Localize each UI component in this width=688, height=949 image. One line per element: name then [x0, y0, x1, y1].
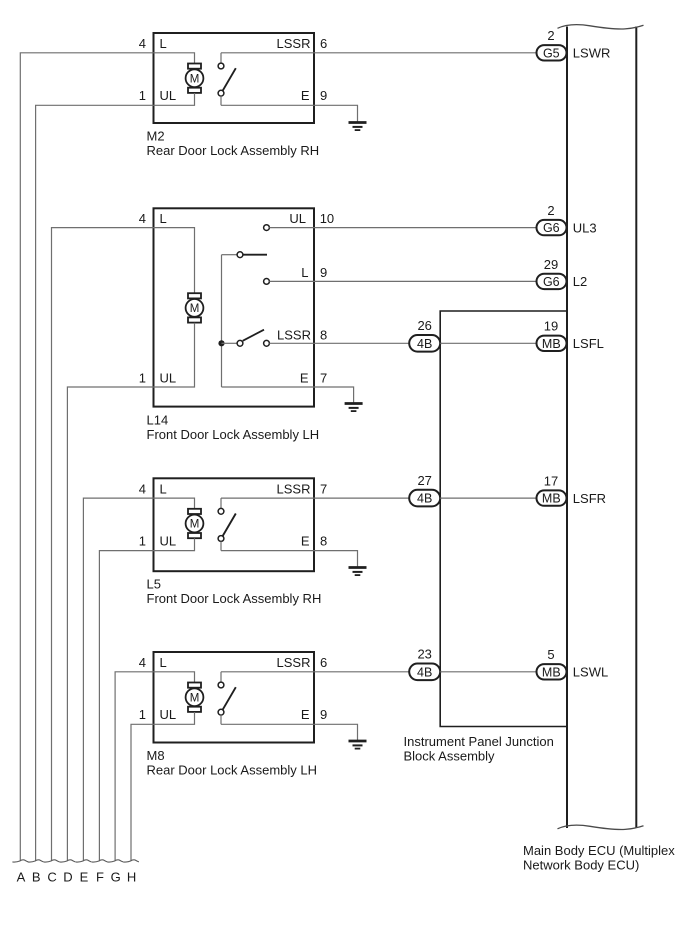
- wire E pin 7 L14: [222, 386, 315, 388]
- wire F: [99, 551, 153, 861]
- svg-text:1: 1: [139, 88, 146, 103]
- wire G: [115, 672, 153, 861]
- connector G6 pin 2 (UL3): [537, 220, 567, 235]
- svg-text:UL: UL: [160, 707, 177, 722]
- svg-text:L: L: [160, 481, 167, 496]
- svg-text:4B: 4B: [417, 665, 432, 679]
- wire M2 to ground: [314, 105, 358, 122]
- svg-text:4: 4: [139, 211, 146, 226]
- switch contact L (pin 9): [264, 279, 270, 285]
- wire LSSR L14 to 4B: [314, 342, 409, 344]
- svg-text:UL: UL: [160, 88, 177, 103]
- wire E break mark: [76, 860, 92, 862]
- wire E L5: [221, 550, 314, 552]
- connector 4B pin 26: [409, 335, 440, 352]
- wire H: [131, 724, 154, 861]
- svg-text:9: 9: [320, 265, 327, 280]
- ECU bottom break line: [558, 825, 644, 829]
- wire L pin 4 L14: [154, 228, 195, 294]
- svg-text:LSSR: LSSR: [277, 327, 311, 342]
- svg-text:G: G: [111, 870, 121, 885]
- wire LSSR L5 to 4B: [314, 497, 409, 499]
- svg-text:E: E: [301, 707, 310, 722]
- svg-text:G6: G6: [543, 275, 560, 289]
- svg-text:Front Door Lock Assembly RH: Front Door Lock Assembly RH: [147, 591, 322, 606]
- wire UL pin 1 L14: [154, 323, 195, 387]
- svg-text:26: 26: [417, 318, 431, 333]
- wire E: [83, 498, 153, 861]
- svg-text:L: L: [160, 655, 167, 670]
- wire L pin 4 M8: [154, 672, 195, 683]
- svg-text:2: 2: [547, 28, 554, 43]
- wire E M8: [221, 723, 314, 725]
- motor L5: [186, 509, 204, 538]
- svg-text:1: 1: [139, 534, 146, 549]
- wire 4B to MB (LSFR): [440, 497, 536, 499]
- ECU top break line: [558, 25, 644, 29]
- svg-text:M2: M2: [147, 128, 165, 143]
- wire L pin 9 L14: [269, 280, 314, 282]
- svg-text:Main Body ECU (Multiplex: Main Body ECU (Multiplex: [523, 843, 675, 858]
- svg-text:UL3: UL3: [573, 220, 597, 235]
- Instrument Panel Junction Block outline: [440, 311, 567, 727]
- wire L5 to ground: [314, 551, 358, 568]
- svg-text:8: 8: [320, 534, 327, 549]
- svg-text:E: E: [301, 534, 310, 549]
- svg-text:4: 4: [139, 36, 146, 51]
- svg-text:E: E: [300, 370, 309, 385]
- svg-text:4: 4: [139, 481, 146, 496]
- wire LSSR L5: [221, 497, 314, 499]
- svg-text:23: 23: [417, 647, 431, 662]
- svg-text:Rear Door Lock Assembly LH: Rear Door Lock Assembly LH: [147, 762, 318, 777]
- connector MB pin 17 (LSFR): [537, 490, 567, 505]
- svg-text:4: 4: [139, 655, 146, 670]
- motor L14: [186, 293, 204, 322]
- lock position switch L5: [218, 498, 236, 550]
- svg-text:F: F: [96, 870, 104, 885]
- lock position switch M8: [218, 672, 236, 725]
- svg-text:Front Door Lock Assembly LH: Front Door Lock Assembly LH: [147, 427, 320, 442]
- connector MB pin 5 (LSWL): [537, 664, 567, 679]
- wire L pin 4 M2: [154, 53, 195, 64]
- Main Body ECU left edge: [566, 27, 568, 829]
- label Main Body ECU: [523, 843, 675, 872]
- svg-text:7: 7: [320, 481, 327, 496]
- svg-text:2: 2: [547, 203, 554, 218]
- svg-text:LSSR: LSSR: [277, 655, 311, 670]
- svg-text:MB: MB: [542, 337, 561, 351]
- svg-text:UL: UL: [289, 211, 306, 226]
- wire UL L14 pin10 to G6: [314, 227, 537, 229]
- svg-text:L: L: [160, 211, 167, 226]
- switch contact UL (pin 10): [264, 225, 270, 231]
- svg-text:L2: L2: [573, 274, 587, 289]
- ground M8: [349, 741, 367, 749]
- wire F break mark: [92, 860, 108, 862]
- svg-text:1: 1: [139, 707, 146, 722]
- wire L pin 4 L5: [154, 498, 195, 509]
- svg-text:5: 5: [547, 647, 554, 662]
- svg-text:4B: 4B: [417, 492, 432, 506]
- label Instrument Panel Junction Block Assembly: [404, 734, 554, 764]
- connector MB pin 19 (LSFL): [537, 336, 567, 351]
- svg-text:M: M: [190, 73, 200, 85]
- door lock assembly M8 box: [154, 652, 315, 743]
- svg-text:L: L: [301, 265, 308, 280]
- wire L14 to ground: [314, 387, 354, 404]
- svg-text:1: 1: [139, 370, 146, 385]
- svg-text:UL: UL: [160, 370, 177, 385]
- wire D: [67, 387, 153, 861]
- svg-text:M8: M8: [147, 748, 165, 763]
- connector G5 pin 2 (LSWR): [537, 45, 567, 60]
- svg-text:E: E: [80, 870, 89, 885]
- svg-text:B: B: [32, 870, 41, 885]
- wire A break mark: [12, 860, 28, 862]
- wire G break mark: [107, 860, 123, 862]
- connector 4B pin 27: [409, 490, 440, 507]
- svg-text:6: 6: [320, 36, 327, 51]
- wire E M2: [221, 104, 314, 106]
- svg-text:LSWL: LSWL: [573, 665, 608, 680]
- wire LSSR M2: [221, 52, 314, 54]
- wire LSSR pin 8 L14: [269, 342, 314, 344]
- wire LSSR M2 to G5: [314, 52, 537, 54]
- wire LSSR M8: [221, 671, 314, 673]
- lock position switch M2: [218, 53, 236, 106]
- Main Body ECU right edge: [635, 27, 637, 829]
- svg-text:LSSR: LSSR: [277, 481, 311, 496]
- ground M2: [349, 123, 367, 131]
- svg-text:M: M: [190, 692, 200, 704]
- connector G6 pin 29 (L2): [537, 274, 567, 289]
- wire H break mark: [123, 860, 139, 862]
- wire 4B to MB (LSFL): [440, 342, 536, 344]
- lock position switch L14 common: [222, 252, 268, 258]
- switch LSSR blade L14: [222, 330, 270, 346]
- svg-text:M: M: [190, 303, 200, 315]
- svg-text:MB: MB: [542, 492, 561, 506]
- svg-text:9: 9: [320, 88, 327, 103]
- svg-text:L5: L5: [147, 577, 161, 592]
- ground L14: [345, 404, 363, 412]
- wire D break mark: [60, 860, 76, 862]
- wire L L14 pin9 to G6: [314, 280, 537, 282]
- svg-text:E: E: [301, 88, 310, 103]
- svg-text:G6: G6: [543, 221, 560, 235]
- svg-text:6: 6: [320, 655, 327, 670]
- svg-text:19: 19: [544, 319, 558, 334]
- svg-text:UL: UL: [160, 534, 177, 549]
- svg-text:A: A: [17, 870, 26, 885]
- svg-text:Block Assembly: Block Assembly: [404, 749, 496, 764]
- svg-text:MB: MB: [542, 665, 561, 679]
- svg-text:D: D: [63, 870, 72, 885]
- wire M8 to ground: [314, 724, 358, 741]
- svg-text:LSWR: LSWR: [573, 46, 611, 61]
- svg-text:8: 8: [320, 327, 327, 342]
- junction node LSSR L14: [218, 340, 224, 346]
- wire C break mark: [44, 860, 60, 862]
- svg-text:29: 29: [544, 257, 558, 272]
- svg-text:LSFL: LSFL: [573, 336, 604, 351]
- motor M8: [186, 683, 204, 712]
- wire B: [36, 105, 154, 861]
- ground L5: [349, 568, 367, 576]
- svg-text:27: 27: [417, 473, 431, 488]
- svg-text:7: 7: [320, 370, 327, 385]
- wire UL pin 1 L5: [154, 538, 195, 550]
- svg-text:L: L: [160, 36, 167, 51]
- svg-text:C: C: [47, 870, 56, 885]
- wire UL pin 1 M2: [154, 93, 195, 105]
- motor M2: [186, 64, 204, 93]
- svg-text:9: 9: [320, 707, 327, 722]
- connector 4B pin 23: [409, 664, 440, 681]
- wire A: [20, 53, 153, 861]
- svg-text:LSSR: LSSR: [277, 36, 311, 51]
- svg-text:H: H: [127, 870, 136, 885]
- svg-text:L14: L14: [147, 412, 169, 427]
- door lock assembly M2 box: [154, 33, 315, 123]
- svg-text:10: 10: [320, 211, 334, 226]
- door lock assembly L5 box: [154, 478, 315, 571]
- wire UL pin 1 M8: [154, 712, 195, 724]
- wire B break mark: [28, 860, 44, 862]
- svg-text:Rear Door Lock Assembly RH: Rear Door Lock Assembly RH: [147, 143, 320, 158]
- wire LSSR M8 to 4B: [314, 671, 409, 673]
- svg-text:Instrument Panel Junction: Instrument Panel Junction: [404, 734, 554, 749]
- svg-text:M: M: [190, 519, 200, 531]
- svg-text:4B: 4B: [417, 337, 432, 351]
- wire 4B to MB (LSWL): [440, 671, 536, 673]
- door lock assembly L14 box: [154, 208, 315, 406]
- wire C: [52, 228, 154, 861]
- svg-text:Network Body ECU): Network Body ECU): [523, 857, 639, 872]
- svg-text:LSFR: LSFR: [573, 491, 606, 506]
- wire UL pin 10 L14: [269, 227, 314, 229]
- switch L14 vertical bus: [221, 255, 223, 387]
- svg-text:17: 17: [544, 474, 558, 489]
- svg-text:G5: G5: [543, 46, 560, 60]
